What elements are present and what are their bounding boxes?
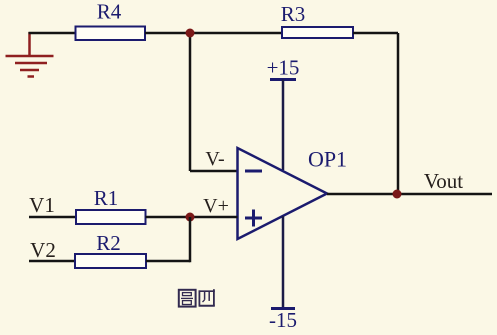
resistor R3 xyxy=(282,27,353,38)
svg-text:-15: -15 xyxy=(269,308,297,332)
svg-text:R2: R2 xyxy=(96,231,121,255)
svg-text:R1: R1 xyxy=(94,186,119,210)
wire node A down xyxy=(189,33,192,171)
wire right vertical xyxy=(397,33,400,194)
ground xyxy=(6,32,54,77)
wire R2 right xyxy=(146,260,190,263)
wire V2 to R2 xyxy=(29,260,75,263)
+15 supply wire xyxy=(282,80,285,171)
minus symbol xyxy=(245,170,262,173)
-15 supply wire xyxy=(282,216,285,309)
wire R4 to R3 xyxy=(145,32,282,35)
output wire xyxy=(327,193,492,196)
wire V1 to R1 xyxy=(29,216,76,219)
svg-text:V-: V- xyxy=(205,148,224,170)
+15 power bar xyxy=(270,78,296,81)
-15 power bar xyxy=(271,307,295,310)
wire up to node B xyxy=(189,217,192,262)
wire R3 to corner xyxy=(353,32,398,35)
svg-text:+15: +15 xyxy=(267,56,300,80)
svg-text:V+: V+ xyxy=(203,195,229,217)
node A junction dot xyxy=(186,29,195,38)
label figure caption 圖 xyxy=(179,290,196,307)
svg-text:V2: V2 xyxy=(30,238,56,262)
svg-text:R4: R4 xyxy=(97,0,122,24)
node B junction dot xyxy=(186,213,195,222)
resistor R1 xyxy=(76,210,146,224)
resistor R4 xyxy=(76,27,146,41)
svg-text:OP1: OP1 xyxy=(308,147,347,172)
wire R1 to non-inverting input xyxy=(146,216,238,219)
svg-text:R3: R3 xyxy=(281,2,306,26)
plus symbol xyxy=(245,210,262,227)
resistor R2 xyxy=(75,254,146,268)
wire ground to R4 xyxy=(29,32,77,35)
op-amp OP1 triangle xyxy=(238,148,328,239)
output node junction dot xyxy=(393,190,402,199)
svg-text:V1: V1 xyxy=(29,193,55,217)
wire to inverting input xyxy=(190,170,238,173)
svg-text:Vout: Vout xyxy=(424,169,463,193)
label figure caption 四 xyxy=(199,289,215,306)
